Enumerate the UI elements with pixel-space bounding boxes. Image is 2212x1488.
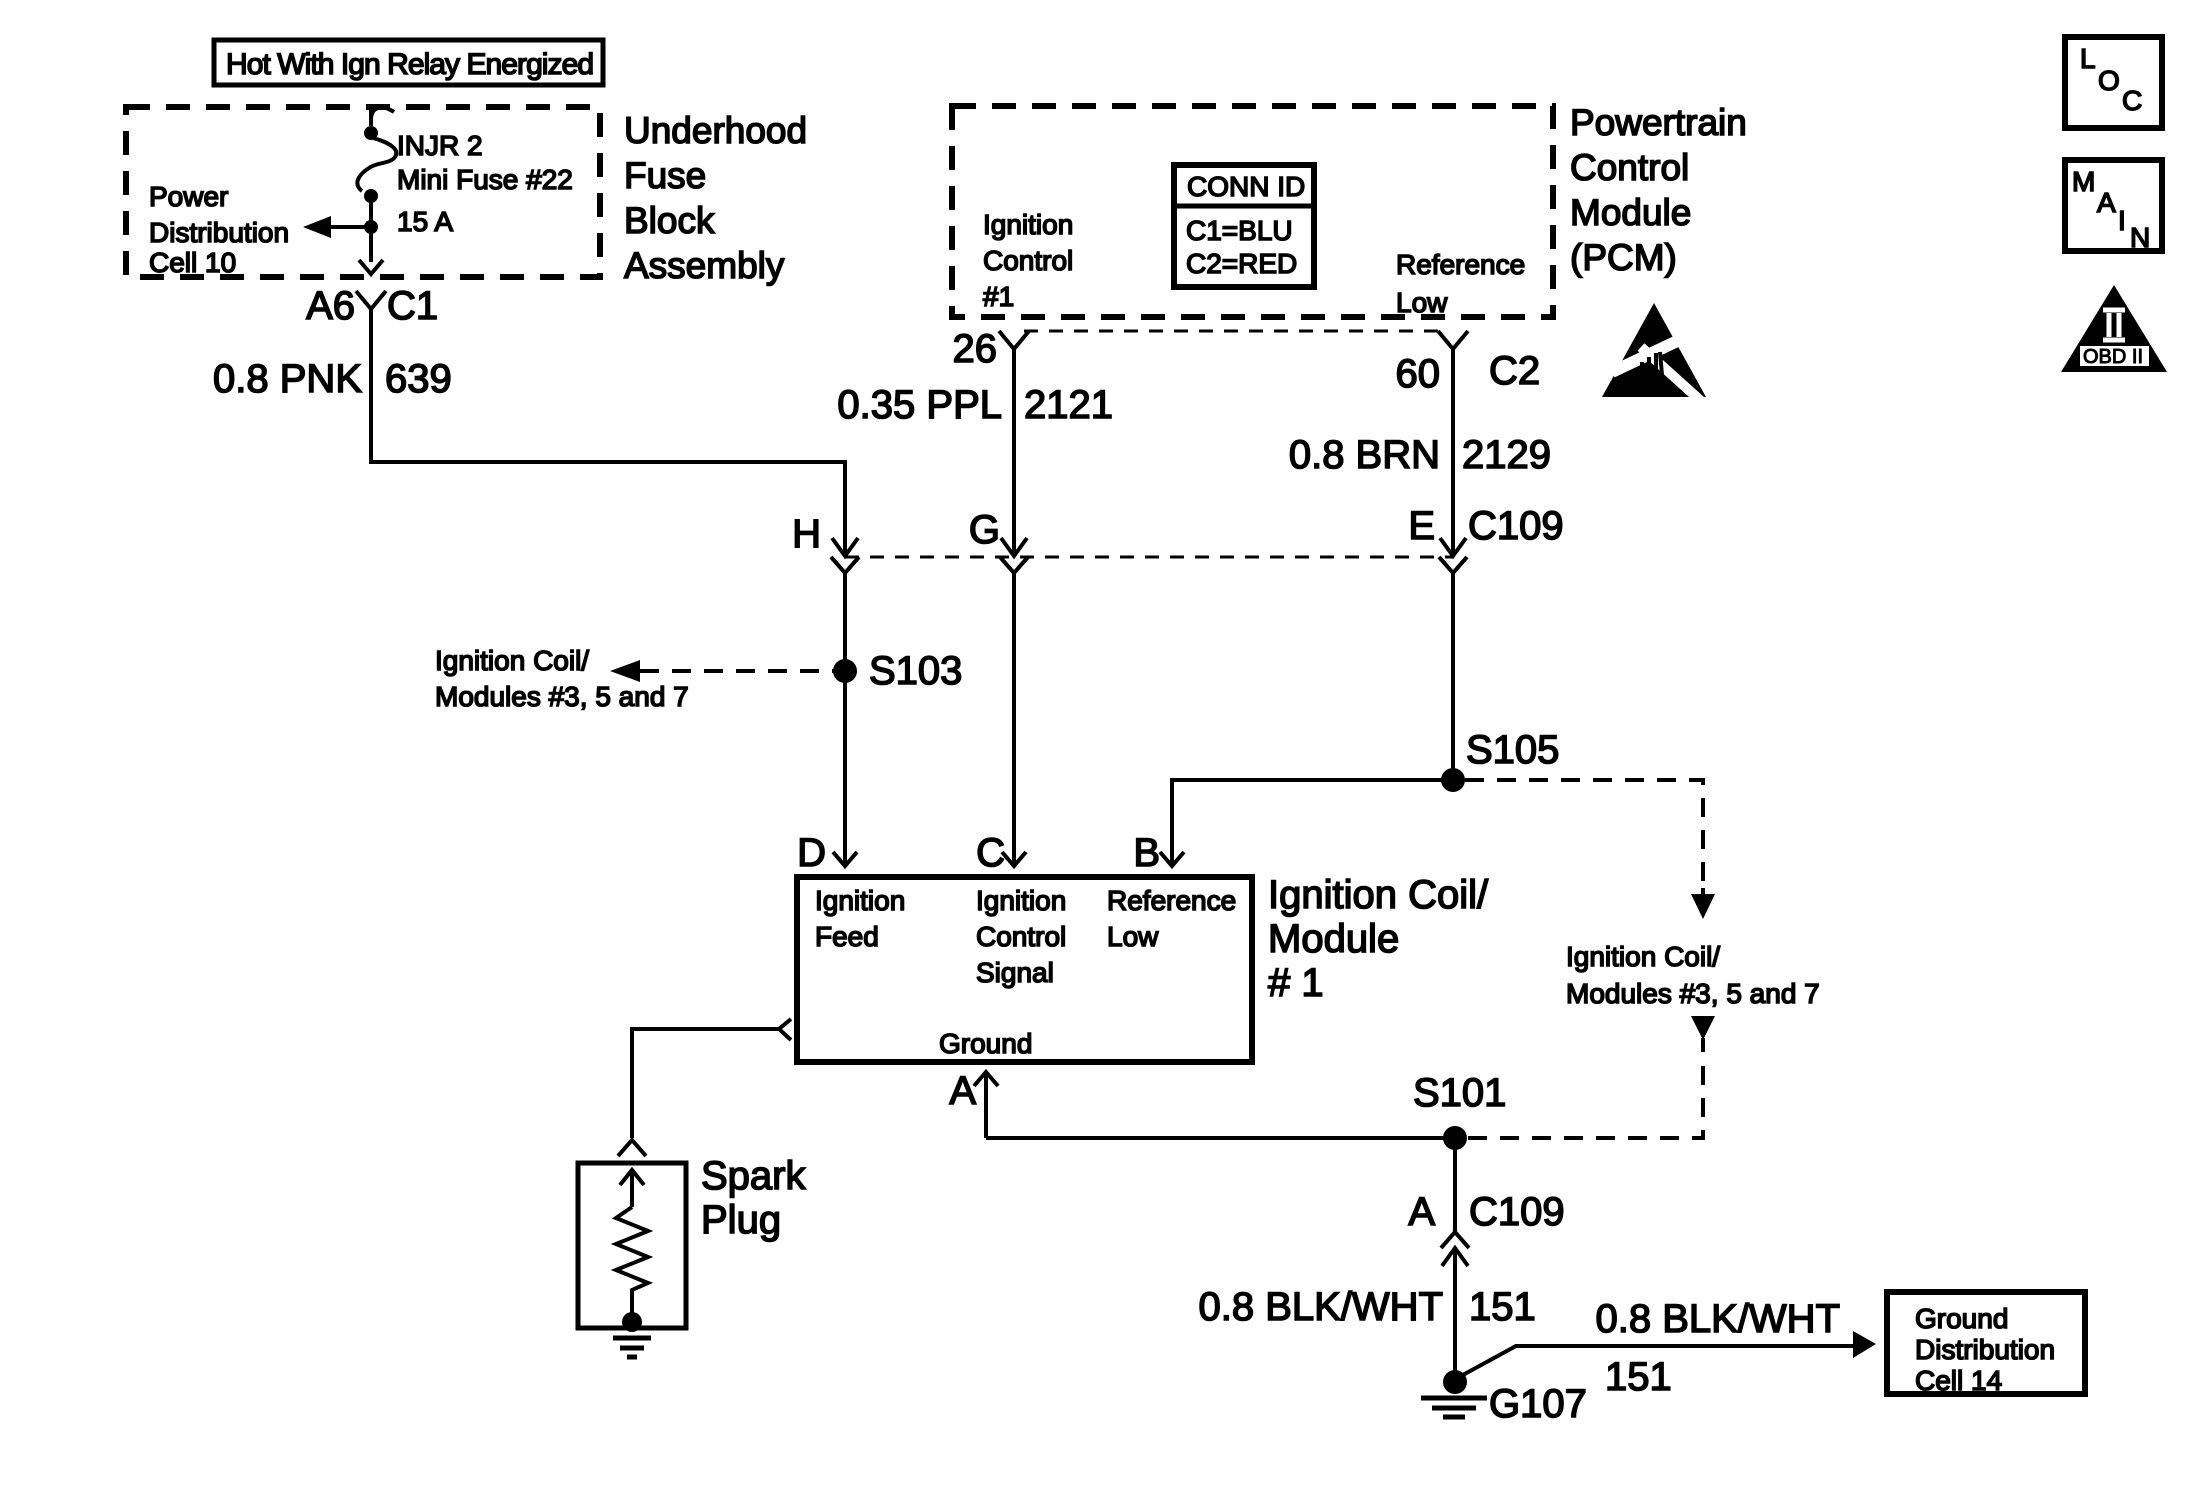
spark plug ground symbol bbox=[613, 1338, 651, 1357]
wire 0.8 PNK 639 (A6 to H) bbox=[371, 309, 845, 556]
wire 0.8 BRN 2129 (pin 60 to E) bbox=[1451, 349, 1455, 556]
svg-text:0.35 PPL: 0.35 PPL bbox=[837, 383, 1002, 427]
svg-text:C: C bbox=[976, 831, 1005, 875]
svg-text:639: 639 bbox=[385, 357, 452, 401]
connector G female fork bbox=[1000, 557, 1028, 573]
svg-text:M: M bbox=[2072, 166, 2095, 197]
ground pin A arrow into coil box bbox=[984, 1072, 988, 1138]
PCM dashed box bbox=[952, 106, 1553, 317]
svg-text:A: A bbox=[1408, 1190, 1435, 1234]
svg-text:IgnitionControlSignal: IgnitionControlSignal bbox=[976, 885, 1066, 988]
svg-text:Hot With Ign Relay Energized: Hot With Ign Relay Energized bbox=[226, 48, 594, 81]
svg-text:H: H bbox=[792, 512, 821, 556]
svg-text:S101: S101 bbox=[1413, 1071, 1506, 1115]
svg-text:C: C bbox=[2122, 85, 2142, 116]
fuse top terminal dot bbox=[364, 126, 378, 140]
male arrow at G bbox=[1001, 538, 1027, 556]
junction dot fuse branch bbox=[364, 220, 378, 234]
svg-text:G: G bbox=[969, 508, 1000, 552]
svg-text:0.8 BLK/WHT: 0.8 BLK/WHT bbox=[1595, 1297, 1840, 1341]
MAIN symbol box bbox=[2065, 160, 2162, 253]
arrowhead to Power Distribution bbox=[303, 216, 331, 238]
ground G107 dot bbox=[1443, 1370, 1467, 1394]
spark plug ground terminal dot bbox=[622, 1312, 642, 1332]
svg-text:A: A bbox=[949, 1069, 976, 1113]
dashed branch S105 to ignition coil modules 3,5,7 bbox=[1465, 780, 1703, 888]
connector E female fork bbox=[1439, 557, 1467, 573]
fuse F22 element (S-curve) bbox=[357, 138, 396, 191]
male arrow at H bbox=[832, 538, 858, 556]
ground G107 symbol bbox=[1421, 1398, 1487, 1417]
splice S101 dot bbox=[1443, 1126, 1467, 1150]
arrowhead to ground distribution bbox=[1853, 1331, 1876, 1358]
svg-text:C1: C1 bbox=[387, 284, 438, 328]
svg-text:26: 26 bbox=[953, 327, 998, 371]
svg-text:E: E bbox=[1408, 504, 1435, 548]
svg-text:151: 151 bbox=[1605, 1355, 1672, 1399]
coil box left connector fork bbox=[779, 1019, 791, 1040]
svg-text:O: O bbox=[2098, 65, 2120, 96]
spark plug box bbox=[578, 1163, 686, 1328]
svg-text:C109: C109 bbox=[1468, 504, 1564, 548]
wire G107 to ground distribution bbox=[1461, 1346, 1853, 1376]
wire A to S101 bbox=[986, 1136, 1455, 1140]
svg-text:CONN ID: CONN ID bbox=[1187, 171, 1305, 202]
svg-text:C109: C109 bbox=[1469, 1190, 1565, 1234]
svg-text:2129: 2129 bbox=[1462, 433, 1551, 477]
male arrow at D bbox=[833, 852, 857, 866]
wire below fuse bbox=[369, 196, 373, 262]
power feed label box "Hot With Ign Relay Energized" bbox=[214, 40, 603, 85]
wire H to D bbox=[843, 573, 847, 866]
svg-text:B: B bbox=[1133, 831, 1160, 875]
svg-text:0.8 BRN: 0.8 BRN bbox=[1289, 433, 1440, 477]
connector fork pin 60 bbox=[1438, 331, 1468, 349]
wire stub into fuse bbox=[369, 107, 373, 126]
inline connector C109 dashed face line bbox=[845, 556, 1453, 559]
ignition coil module #1 box bbox=[797, 877, 1252, 1062]
svg-text:A: A bbox=[2097, 187, 2116, 218]
svg-text:D: D bbox=[797, 831, 826, 875]
svg-text:S105: S105 bbox=[1466, 728, 1559, 772]
svg-text:L: L bbox=[2080, 43, 2096, 74]
splice S105 dot bbox=[1441, 768, 1465, 792]
connector A6/C1 female fork bbox=[356, 291, 386, 309]
spark plug resistor zigzag bbox=[616, 1207, 648, 1316]
arrowhead to ignition coil modules bbox=[610, 660, 640, 682]
fuse bottom terminal dot bbox=[364, 189, 378, 203]
svg-text:C1=BLU: C1=BLU bbox=[1186, 215, 1293, 246]
arrowhead down to modules label bbox=[1691, 894, 1715, 919]
svg-text:151: 151 bbox=[1469, 1285, 1536, 1329]
spark plug connector female fork (opens down) bbox=[618, 1140, 646, 1156]
spark plug internal arrow bbox=[620, 1170, 644, 1185]
svg-text:A6: A6 bbox=[306, 284, 355, 328]
male arrow at E bbox=[1440, 538, 1466, 556]
svg-text:N: N bbox=[2130, 222, 2150, 253]
svg-text:0.8 BLK/WHT: 0.8 BLK/WHT bbox=[1198, 1285, 1443, 1329]
svg-text:I: I bbox=[2118, 205, 2126, 236]
wire S101 down to connector A/C109 bbox=[1453, 1138, 1457, 1232]
connector fork pin 26 bbox=[999, 331, 1029, 349]
svg-text:C2=RED: C2=RED bbox=[1186, 248, 1297, 279]
wire 0.8 BLK/WHT 151 down to G107 bbox=[1453, 1248, 1457, 1373]
svg-text:60: 60 bbox=[1396, 352, 1441, 396]
ESD sensitivity symbol (hand triangle) bbox=[1602, 303, 1706, 401]
wire branch to Power Distribution bbox=[312, 225, 371, 229]
male arrow at B bbox=[1160, 852, 1184, 866]
svg-text:0.8 PNK: 0.8 PNK bbox=[213, 357, 362, 401]
svg-text:Ground: Ground bbox=[939, 1028, 1032, 1059]
connector H female fork bbox=[831, 557, 859, 573]
continuation triangle from modules bbox=[1691, 1016, 1715, 1040]
PCM connector face dashed line (pin 26 to pin 60) bbox=[1024, 330, 1440, 333]
wire S105 to B bbox=[1172, 780, 1453, 866]
svg-text:OBD II: OBD II bbox=[2083, 346, 2143, 368]
connector A/C109 lower male arrow (points up) bbox=[1442, 1248, 1468, 1266]
LOC symbol box bbox=[2065, 37, 2162, 128]
underhood fuse block assembly dashed box bbox=[126, 107, 600, 277]
splice S103 dot bbox=[833, 659, 857, 683]
svg-text:G107: G107 bbox=[1489, 1382, 1587, 1426]
fuse hook bbox=[371, 107, 394, 118]
OBD II symbol triangle bbox=[2061, 285, 2167, 372]
connector A/C109 upper female fork (opens down) bbox=[1441, 1232, 1469, 1248]
wire E to S105 bbox=[1451, 573, 1455, 780]
male arrow at fuse block outlet bbox=[359, 260, 383, 274]
svg-text:2121: 2121 bbox=[1024, 383, 1113, 427]
male arrow at C bbox=[1002, 852, 1026, 866]
wire coil box to spark plug bbox=[632, 1029, 779, 1138]
wire G to C bbox=[1012, 573, 1016, 866]
wire 0.35 PPL 2121 (pin 26 to G) bbox=[1012, 349, 1016, 556]
svg-text:C2: C2 bbox=[1489, 349, 1540, 393]
dashed wire down to S101 bbox=[1465, 1066, 1703, 1138]
dashed branch wire to ignition coil modules 3,5,7 bbox=[640, 669, 834, 673]
ground distribution cell 14 box bbox=[1887, 1292, 2085, 1396]
CONN ID table box bbox=[1174, 165, 1314, 287]
svg-text:S103: S103 bbox=[869, 649, 962, 693]
